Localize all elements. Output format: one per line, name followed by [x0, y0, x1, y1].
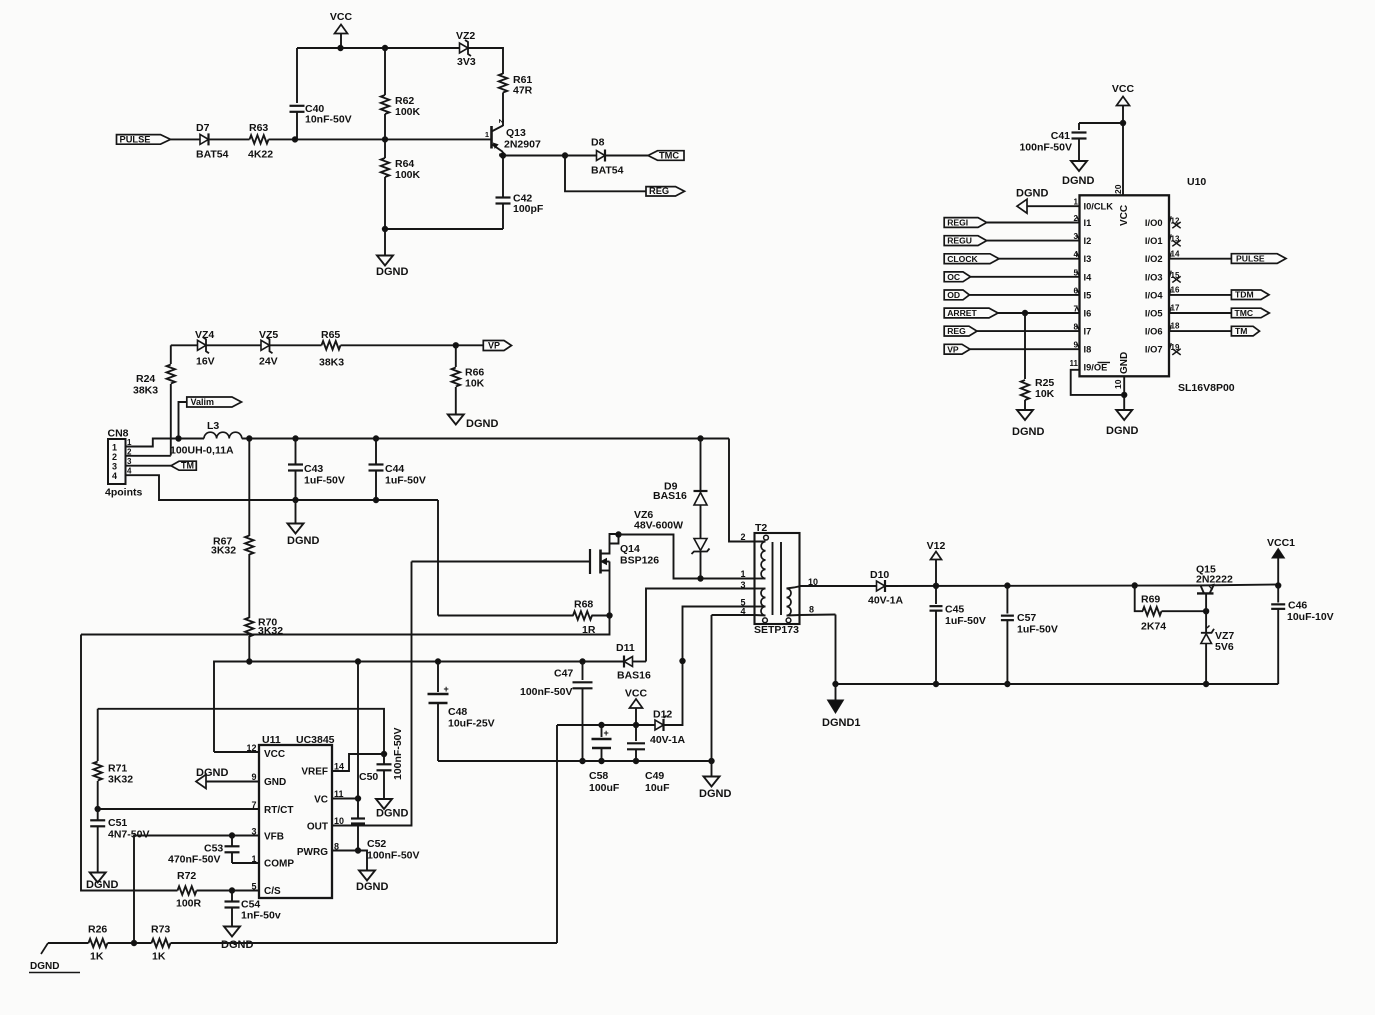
diode D8 BAT54: [565, 137, 648, 177]
resistor R70 3K32: [245, 554, 283, 662]
svg-text:OD: OD: [947, 290, 960, 300]
svg-text:Valim: Valim: [191, 397, 215, 407]
svg-text:38K3: 38K3: [133, 385, 158, 397]
zener diode VZ6 48V-600W: [634, 509, 710, 579]
wire zener chain rail: [171, 343, 483, 348]
svg-text:VC: VC: [314, 795, 328, 806]
svg-text:VZ2: VZ2: [456, 30, 475, 42]
svg-text:VCC: VCC: [625, 688, 648, 700]
node flag CLOCK input: [944, 250, 1079, 264]
svg-text:3K32: 3K32: [108, 774, 133, 786]
svg-text:1uF-50V: 1uF-50V: [1017, 624, 1058, 636]
diode D9 BAS16: [653, 439, 708, 539]
capacitor C57 1uF-50V: [1001, 586, 1058, 687]
node flag TMC output (U10): [1231, 308, 1269, 318]
svg-text:1nF-50v: 1nF-50v: [241, 910, 281, 922]
svg-text:8: 8: [809, 605, 814, 615]
node flag REGI input: [944, 214, 1079, 228]
ground DGND (R25): [1012, 410, 1044, 438]
capacitor C45 1uF-50V: [930, 586, 986, 687]
svg-text:L3: L3: [207, 420, 219, 432]
pin 8 wire T2: [787, 605, 836, 616]
pin 16 wire to TDM: [1169, 286, 1231, 295]
svg-text:1: 1: [485, 130, 489, 139]
svg-text:TM: TM: [1235, 326, 1247, 336]
diode D7 BAT54: [196, 122, 229, 161]
svg-text:4N7-50V: 4N7-50V: [108, 829, 149, 841]
power flag V12: [927, 540, 946, 586]
svg-text:+: +: [604, 728, 609, 738]
svg-text:2N2222: 2N2222: [1196, 573, 1233, 585]
svg-text:2N2907: 2N2907: [504, 139, 541, 151]
svg-text:11: 11: [1070, 359, 1079, 368]
svg-text:1: 1: [112, 443, 117, 453]
node flag REG input: [944, 323, 1079, 337]
svg-text:1uF-50V: 1uF-50V: [304, 475, 345, 487]
svg-text:I/O6: I/O6: [1145, 327, 1163, 337]
wire feedback bottom rail: [48, 940, 557, 945]
node flag TM output (U10): [1231, 326, 1259, 336]
zener diode VZ2 3V3: [456, 30, 476, 68]
ground DGND (C43 C44): [287, 500, 319, 547]
svg-text:100nF-50V: 100nF-50V: [1019, 142, 1072, 154]
svg-text:38K3: 38K3: [319, 357, 344, 369]
svg-text:1uF-50V: 1uF-50V: [945, 615, 986, 627]
svg-text:100R: 100R: [176, 898, 202, 910]
svg-text:TMC: TMC: [1235, 308, 1254, 318]
svg-text:I7: I7: [1084, 327, 1092, 337]
svg-text:DGND: DGND: [86, 879, 118, 891]
pin 1 stub T2: [740, 569, 765, 579]
svg-text:C41: C41: [1051, 130, 1070, 142]
svg-text:R26: R26: [88, 924, 107, 936]
svg-text:10K: 10K: [1035, 388, 1055, 400]
no-connect X marks pins 12 13 15 19: [1171, 217, 1181, 355]
svg-text:VZ4: VZ4: [195, 329, 214, 341]
ground DGND1: [822, 684, 861, 729]
svg-text:DGND: DGND: [376, 266, 408, 278]
svg-text:GND: GND: [1119, 352, 1130, 374]
power flag VCC (U10): [1112, 83, 1135, 195]
svg-text:VCC: VCC: [264, 749, 285, 760]
capacitor C49 10uF: [627, 725, 670, 794]
pin 2 wire T2: [729, 439, 766, 543]
svg-text:T2: T2: [755, 522, 767, 534]
pin 10 label: [1113, 379, 1123, 389]
svg-text:C/S: C/S: [264, 886, 281, 897]
svg-text:1K: 1K: [152, 951, 166, 963]
svg-text:DGND: DGND: [1106, 425, 1138, 437]
ic U10 body: [1080, 176, 1235, 394]
svg-text:I/O7: I/O7: [1145, 345, 1163, 355]
resistor R62 100K: [381, 48, 421, 139]
svg-text:I5: I5: [1084, 290, 1092, 300]
svg-text:C47: C47: [554, 668, 573, 680]
resistor R71 3K32: [94, 709, 134, 809]
svg-text:4: 4: [740, 607, 745, 617]
wire VCC node rail: [214, 659, 624, 752]
wire T2 pin8 down: [833, 615, 838, 687]
pin 1 wire CN8: [126, 438, 179, 447]
transformer T2 SETP173: [754, 522, 800, 636]
svg-text:40V-1A: 40V-1A: [650, 734, 685, 746]
svg-text:BAS16: BAS16: [653, 490, 687, 502]
svg-text:I2: I2: [1084, 236, 1092, 246]
svg-text:C48: C48: [448, 706, 467, 718]
svg-text:100nF-50V: 100nF-50V: [367, 850, 420, 862]
node flag TMC output (top): [648, 151, 684, 161]
svg-text:PULSE: PULSE: [120, 134, 151, 144]
svg-text:10: 10: [1113, 379, 1123, 389]
svg-text:DGND: DGND: [466, 418, 498, 430]
pin number tick marks U10: [1077, 216, 1171, 349]
svg-text:11: 11: [334, 789, 344, 799]
svg-text:PULSE: PULSE: [1236, 254, 1265, 264]
pin 10 wire T2: [787, 577, 819, 589]
wire to REG flag: [565, 156, 646, 192]
wire R61 to Q13 collector: [502, 93, 504, 127]
pin 11 wire: [1070, 359, 1125, 395]
svg-text:REGU: REGU: [947, 236, 972, 246]
ground DGND (U11 GND pin9): [196, 767, 259, 789]
ground DGND (divider): [376, 229, 408, 278]
ground DGND (U10 pin1): [1016, 188, 1080, 214]
pin 4 wire T2: [712, 607, 766, 617]
zener diode VZ7 5V6: [1201, 611, 1235, 687]
svg-text:TMC: TMC: [659, 151, 679, 161]
svg-text:REGI: REGI: [947, 218, 968, 228]
wire bottom of divider: [382, 226, 503, 231]
pin 3 wire CN8: [126, 457, 172, 466]
svg-text:R63: R63: [249, 122, 268, 134]
svg-text:R69: R69: [1141, 594, 1160, 606]
svg-text:VZ5: VZ5: [259, 329, 278, 341]
wire current sense: [81, 635, 178, 891]
node flag REG output (top): [646, 186, 685, 196]
ground DGND (C54): [221, 927, 253, 952]
diode D10 40V-1A: [868, 569, 903, 607]
svg-text:VCC: VCC: [1112, 83, 1135, 95]
pin 1 COMP wire: [232, 862, 259, 864]
capacitor C41 100nF-50V: [1019, 123, 1086, 161]
capacitor C43 1uF-50V: [288, 439, 345, 503]
svg-text:R65: R65: [321, 329, 340, 341]
pin 17 wire to TMC: [1169, 304, 1231, 314]
svg-text:2: 2: [740, 532, 745, 542]
ic U11 body: [259, 734, 335, 898]
wire main Valim node: [242, 436, 729, 441]
svg-text:4: 4: [127, 467, 132, 476]
svg-text:24V: 24V: [259, 356, 278, 368]
svg-text:DGND: DGND: [1062, 175, 1094, 187]
ground DGND (C41): [1062, 161, 1094, 187]
resistor R69 2K74: [1135, 586, 1209, 633]
svg-text:OUT: OUT: [307, 822, 328, 833]
svg-text:R72: R72: [177, 870, 196, 882]
svg-text:3V3: 3V3: [457, 56, 476, 68]
capacitor C40 10nF-50V: [290, 48, 352, 139]
power flag VCC (middle): [625, 688, 648, 726]
svg-text:VP: VP: [488, 341, 500, 351]
transistor Q14 BSP126: [590, 532, 659, 616]
wire secondary rail: [800, 583, 1198, 589]
node flag ARRET input: [944, 305, 1079, 319]
capacitor C51 4N7-50V: [90, 809, 149, 873]
capacitor C53 470nF-50V: [168, 836, 240, 866]
wire VFB node: [134, 833, 259, 943]
svg-text:U10: U10: [1187, 176, 1206, 188]
pin 14 wire to PULSE: [1169, 250, 1231, 259]
node flag OC input: [944, 268, 1079, 282]
zener diode VZ4 16V: [195, 329, 215, 368]
svg-text:1: 1: [740, 569, 745, 579]
node flag VP output: [483, 341, 511, 351]
svg-text:BAT54: BAT54: [196, 149, 229, 161]
capacitor C48 10uF-25V: [428, 662, 495, 762]
pin 5 stub T2: [740, 598, 765, 608]
pin 3 stub T2: [740, 580, 765, 590]
svg-text:2K74: 2K74: [1141, 621, 1166, 633]
svg-text:Q13: Q13: [506, 127, 526, 139]
svg-text:TDM: TDM: [1235, 290, 1254, 300]
svg-text:R24: R24: [136, 373, 155, 385]
pin VCC rotated label: [1119, 205, 1130, 226]
wire VZ2 to R61: [468, 48, 503, 74]
node flag OD input: [944, 286, 1079, 300]
capacitor C50 100nF-50V: [359, 727, 404, 799]
svg-text:UC3845: UC3845: [296, 734, 335, 746]
wire T2 pin4 to ground bus: [711, 615, 713, 761]
svg-text:100K: 100K: [395, 106, 421, 118]
svg-text:COMP: COMP: [264, 859, 294, 870]
svg-text:DGND: DGND: [221, 939, 253, 951]
wire ground bus B: [438, 758, 714, 763]
svg-text:SETP173: SETP173: [754, 624, 799, 636]
svg-text:18: 18: [1171, 322, 1180, 331]
node flag VP input: [944, 341, 1079, 355]
ground DGND (PWRG): [356, 871, 388, 894]
svg-text:VCC: VCC: [330, 11, 353, 23]
svg-text:2: 2: [127, 447, 132, 456]
ground DGND (bottom left): [29, 943, 80, 973]
svg-text:I0/CLK: I0/CLK: [1084, 202, 1114, 212]
wire gate from U11 OUT: [412, 561, 591, 563]
svg-text:DGND: DGND: [376, 808, 408, 820]
svg-text:DGND: DGND: [1016, 188, 1048, 200]
resistor R67 3K32: [211, 439, 254, 557]
svg-text:14: 14: [334, 762, 344, 772]
svg-text:I/O0: I/O0: [1145, 218, 1163, 228]
ic U11 pin numbers: [246, 743, 344, 892]
svg-text:VCC1: VCC1: [1267, 537, 1295, 549]
svg-text:I8: I8: [1084, 345, 1092, 355]
svg-text:PWRG: PWRG: [297, 847, 328, 858]
svg-text:I9/OE: I9/OE: [1084, 363, 1108, 373]
resistor R73 1K: [151, 924, 171, 963]
svg-text:D12: D12: [653, 709, 672, 721]
svg-text:D7: D7: [196, 122, 210, 134]
resistor R26 1K: [88, 924, 108, 963]
node flag TM (CN8): [171, 460, 196, 470]
svg-text:BSP126: BSP126: [620, 555, 659, 567]
svg-text:+: +: [444, 684, 449, 694]
svg-text:4: 4: [112, 471, 117, 481]
svg-text:C49: C49: [645, 770, 664, 782]
resistor R65 38K3: [319, 329, 344, 369]
svg-text:100pF: 100pF: [513, 203, 544, 215]
svg-text:BAS16: BAS16: [617, 670, 651, 682]
ground DGND (R66): [448, 415, 499, 431]
wire VCC top rail: [297, 45, 460, 50]
svg-text:16: 16: [1171, 286, 1180, 295]
pin 8 PWRG wire: [332, 851, 367, 871]
diode D12 40V-1A: [650, 709, 685, 747]
svg-text:2: 2: [497, 119, 506, 123]
connector CN8 body: [105, 428, 142, 499]
capacitor C46 10uF-10V: [1271, 586, 1333, 685]
svg-text:47R: 47R: [513, 85, 533, 97]
svg-text:C51: C51: [108, 817, 127, 829]
svg-text:3K32: 3K32: [211, 545, 236, 557]
svg-text:4K22: 4K22: [248, 149, 273, 161]
diode D11 BAS16: [616, 642, 651, 682]
svg-text:SL16V8P00: SL16V8P00: [1178, 382, 1235, 394]
svg-text:D11: D11: [616, 642, 635, 654]
svg-text:DGND: DGND: [356, 881, 388, 893]
svg-text:C45: C45: [945, 604, 964, 616]
svg-text:9: 9: [251, 772, 256, 782]
wire VC/C52 branch: [355, 662, 360, 854]
svg-text:1: 1: [1074, 198, 1079, 207]
wire DGND1 ground bus: [836, 683, 1279, 685]
resistor R61 47R: [499, 74, 533, 97]
wire VCC rail A: [557, 722, 655, 727]
svg-text:I4: I4: [1084, 272, 1093, 282]
svg-text:GND: GND: [264, 777, 286, 788]
svg-text:VP: VP: [947, 344, 959, 354]
wire VCC to C41: [1079, 120, 1126, 125]
svg-text:DGND: DGND: [1012, 426, 1044, 438]
pin 10 GND wire: [1122, 376, 1127, 410]
capacitor C42 100pF: [496, 156, 544, 230]
svg-text:3: 3: [112, 462, 117, 472]
resistor R64 100K: [381, 139, 421, 229]
svg-text:VREF: VREF: [301, 767, 328, 778]
svg-text:R68: R68: [574, 599, 593, 611]
svg-text:CN8: CN8: [108, 428, 129, 440]
ground DGND (C50): [376, 799, 408, 820]
ground DGND (U10 GND): [1106, 410, 1138, 437]
svg-text:DGND1: DGND1: [822, 717, 861, 729]
svg-text:OC: OC: [947, 272, 960, 282]
power flag VCC1: [1267, 537, 1295, 588]
svg-text:C43: C43: [304, 463, 323, 475]
svg-text:I3: I3: [1084, 254, 1092, 264]
svg-text:RT/CT: RT/CT: [264, 805, 293, 816]
svg-text:10uF-10V: 10uF-10V: [1287, 611, 1334, 623]
transistor Q13 2N2907: [485, 119, 541, 157]
svg-text:10K: 10K: [465, 378, 485, 390]
svg-text:D10: D10: [870, 569, 889, 581]
svg-text:10: 10: [334, 816, 344, 826]
ground DGND (bus B): [699, 761, 731, 800]
resistor R66 10K: [452, 345, 485, 414]
svg-text:C44: C44: [385, 463, 404, 475]
svg-text:2: 2: [112, 452, 117, 462]
node flag Valim: [179, 397, 242, 439]
svg-text:100nF-50V: 100nF-50V: [520, 686, 573, 698]
capacitor C47 100nF-50V: [520, 662, 593, 764]
pin GND rotated label: [1119, 352, 1130, 374]
transistor Q15 2N2222: [1196, 564, 1278, 612]
wire R63 to Q13 base: [269, 137, 492, 142]
resistor R25 10K: [1021, 310, 1055, 410]
svg-text:40V-1A: 40V-1A: [868, 595, 903, 607]
svg-text:R73: R73: [151, 924, 170, 936]
svg-text:VCC: VCC: [1119, 205, 1130, 226]
node flag TDM output: [1231, 290, 1269, 300]
wire Q14 source to current sense: [81, 616, 610, 635]
capacitor C44 1uF-50V: [369, 439, 426, 503]
wire rail A to feedback divider: [556, 725, 558, 943]
wire D11 to T2 pin3: [646, 589, 755, 662]
svg-text:ARRET: ARRET: [947, 308, 977, 318]
svg-text:I/O5: I/O5: [1145, 309, 1163, 319]
wire DGND net down right side: [437, 500, 439, 616]
svg-text:10uF: 10uF: [645, 782, 670, 794]
svg-text:DGND: DGND: [287, 535, 319, 547]
svg-text:C50: C50: [359, 771, 378, 783]
svg-text:1: 1: [127, 438, 132, 447]
svg-text:1uF-50V: 1uF-50V: [385, 475, 426, 487]
svg-text:C57: C57: [1017, 612, 1036, 624]
resistor R24 38K3: [133, 345, 175, 455]
svg-text:REG: REG: [649, 186, 669, 196]
svg-text:4points: 4points: [105, 487, 142, 499]
ground DGND (C51): [86, 873, 118, 892]
svg-text:REG: REG: [947, 326, 966, 336]
svg-text:16V: 16V: [196, 356, 215, 368]
pin 4 wire CN8: [126, 467, 439, 500]
svg-text:TM: TM: [181, 460, 194, 470]
svg-text:470nF-50V: 470nF-50V: [168, 854, 221, 866]
svg-text:10nF-50V: 10nF-50V: [305, 114, 352, 126]
ic U10 left pin names: [1084, 202, 1114, 373]
wire Q14 drain to T2 pin1: [619, 535, 755, 582]
svg-text:I/O2: I/O2: [1145, 254, 1163, 264]
resistor R68 1R: [438, 599, 612, 637]
svg-text:5V6: 5V6: [1215, 641, 1234, 653]
svg-text:D8: D8: [591, 137, 605, 149]
svg-text:VFB: VFB: [264, 832, 284, 843]
svg-text:I6: I6: [1084, 309, 1092, 319]
svg-text:C52: C52: [367, 838, 386, 850]
svg-text:100K: 100K: [395, 169, 421, 181]
svg-text:I/O4: I/O4: [1145, 290, 1163, 300]
svg-text:20: 20: [1113, 184, 1123, 194]
svg-text:100uF: 100uF: [589, 782, 620, 794]
svg-text:C58: C58: [589, 770, 608, 782]
node flag PULSE input: [117, 134, 201, 144]
wire VREF node: [98, 709, 387, 757]
svg-text:CLOCK: CLOCK: [947, 254, 978, 264]
zener diode VZ5 24V: [259, 329, 278, 368]
wire Q13 emitter node: [500, 153, 567, 158]
inductor L3 100UH-0,11A: [170, 420, 242, 457]
svg-text:3: 3: [127, 457, 132, 466]
svg-text:BAT54: BAT54: [591, 165, 624, 177]
svg-text:3: 3: [740, 580, 745, 590]
